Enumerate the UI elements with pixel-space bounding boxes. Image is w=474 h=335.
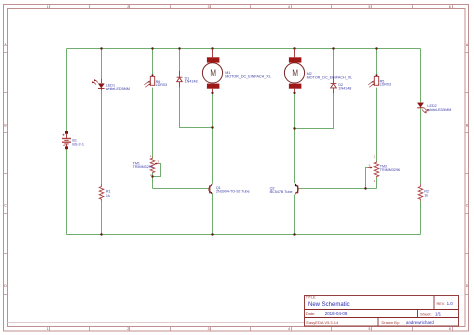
svg-text:TRIMM3296: TRIMM3296 <box>133 165 153 169</box>
svg-text:2N3904-TO-92 Tube: 2N3904-TO-92 Tube <box>216 189 250 193</box>
svg-text:2: 2 <box>127 5 129 9</box>
svg-text:1/1: 1/1 <box>435 311 442 316</box>
svg-text:BC547B Tube: BC547B Tube <box>270 190 293 194</box>
svg-text:LDR03: LDR03 <box>156 83 167 87</box>
svg-text:TRIMM3296: TRIMM3296 <box>380 168 400 172</box>
svg-text:1.0: 1.0 <box>447 301 454 306</box>
svg-text:6: 6 <box>449 5 451 9</box>
svg-text:BS-2-1: BS-2-1 <box>72 143 83 147</box>
svg-text:whiteLED5MM: whiteLED5MM <box>106 87 130 91</box>
svg-text:1k: 1k <box>106 194 110 198</box>
svg-text:MOTOR_DC_EINFACH_XL: MOTOR_DC_EINFACH_XL <box>307 76 353 80</box>
svg-text:3: 3 <box>208 5 210 9</box>
svg-text:1: 1 <box>47 327 49 331</box>
svg-text:3: 3 <box>208 327 210 331</box>
svg-text:whiteLED5MM: whiteLED5MM <box>427 108 451 112</box>
svg-text:4: 4 <box>288 327 290 331</box>
svg-text:TITLE:: TITLE: <box>306 295 316 299</box>
svg-text:6: 6 <box>449 327 451 331</box>
svg-text:1N4148: 1N4148 <box>338 86 351 90</box>
svg-text:MOTOR_DC_EINFACH_XL: MOTOR_DC_EINFACH_XL <box>225 75 271 79</box>
svg-text:1N4148: 1N4148 <box>185 80 198 84</box>
svg-text:2: 2 <box>127 327 129 331</box>
svg-text:4: 4 <box>288 5 290 9</box>
svg-text:1k: 1k <box>424 193 428 197</box>
svg-text:EasyEDA V5.3.14: EasyEDA V5.3.14 <box>306 320 339 325</box>
svg-text:Date:: Date: <box>306 311 316 316</box>
svg-text:M: M <box>292 68 298 78</box>
svg-text:andrewrichard: andrewrichard <box>406 320 434 325</box>
svg-text:1: 1 <box>47 5 49 9</box>
svg-text:Drawn By:: Drawn By: <box>382 320 400 325</box>
svg-text:LDR03: LDR03 <box>380 83 391 87</box>
svg-text:New Schematic: New Schematic <box>308 302 350 308</box>
svg-text:M: M <box>210 68 216 78</box>
svg-text:5: 5 <box>368 5 370 9</box>
svg-text:5: 5 <box>368 327 370 331</box>
svg-text:Sheet:: Sheet: <box>420 311 432 316</box>
svg-text:REV.: REV. <box>437 302 446 306</box>
svg-text:2018-04-09: 2018-04-09 <box>325 311 348 316</box>
